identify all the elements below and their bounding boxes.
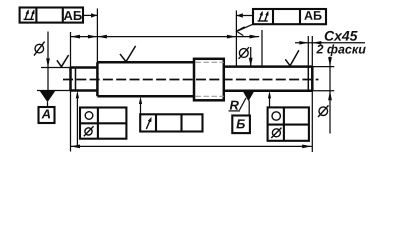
- svg-text:2 фаски: 2 фаски: [315, 42, 366, 56]
- svg-text:АБ: АБ: [304, 9, 322, 23]
- svg-text:R: R: [229, 98, 239, 113]
- svg-text:Б: Б: [236, 116, 245, 131]
- svg-text:Сх45: Сх45: [324, 28, 358, 44]
- svg-text:АБ: АБ: [64, 8, 83, 23]
- svg-text:А: А: [41, 106, 51, 121]
